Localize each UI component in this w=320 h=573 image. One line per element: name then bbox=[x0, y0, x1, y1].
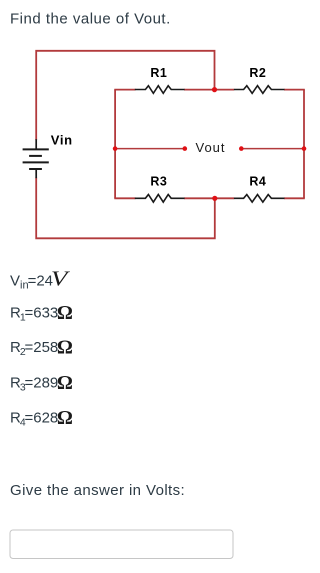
wire: bridge right vertical bbox=[303, 90, 305, 199]
resistor R2 bbox=[234, 86, 285, 94]
node: top-center junction bbox=[212, 87, 217, 92]
node: Vout right terminal bbox=[239, 146, 244, 151]
wire: source loop bottom (battery bottom to bottom-center node) bbox=[36, 178, 215, 239]
node: bridge right mid bbox=[302, 146, 307, 151]
wire: source loop top (battery top to top-center node) bbox=[36, 51, 214, 140]
svg-text:Vin: Vin bbox=[51, 133, 73, 148]
svg-text:R2=258Ω: R2=258Ω bbox=[10, 336, 73, 358]
wire: bottom rail red segments bbox=[114, 197, 304, 199]
svg-text:R1=633Ω: R1=633Ω bbox=[10, 302, 73, 324]
node: bridge left mid bbox=[113, 146, 118, 151]
svg-text:R2: R2 bbox=[249, 66, 266, 80]
node: Vout left terminal bbox=[183, 146, 188, 151]
svg-text:R4: R4 bbox=[249, 175, 266, 189]
battery V1 (Vin source symbol) bbox=[23, 139, 49, 178]
resistor R1 bbox=[135, 86, 185, 94]
svg-text:R4=628Ω: R4=628Ω bbox=[10, 407, 73, 429]
svg-text:R3=289Ω: R3=289Ω bbox=[10, 372, 73, 394]
svg-text:R3: R3 bbox=[150, 175, 167, 189]
resistor R3 bbox=[135, 195, 185, 203]
wire: Vout right arm bbox=[241, 148, 304, 150]
svg-text:Give the answer in Volts:: Give the answer in Volts: bbox=[10, 482, 185, 499]
svg-text:Find the value of Vout.: Find the value of Vout. bbox=[10, 11, 171, 28]
wire: top rail red segments bbox=[114, 89, 304, 91]
resistor R4 bbox=[234, 195, 285, 203]
svg-text:Vin=24V: Vin=24V bbox=[10, 267, 70, 292]
answer input box bbox=[10, 530, 233, 559]
wire: Vout left arm bbox=[115, 148, 185, 150]
wire: bridge left vertical bbox=[114, 90, 116, 199]
svg-text:Vout: Vout bbox=[196, 140, 226, 155]
node: bottom-center junction bbox=[212, 196, 217, 201]
svg-text:R1: R1 bbox=[150, 66, 167, 80]
